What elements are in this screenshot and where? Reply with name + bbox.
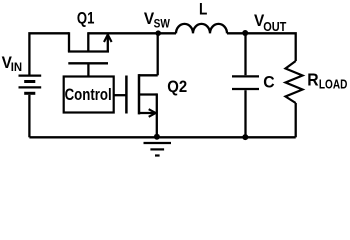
wire inductor to V_OUT node: [227, 32, 245, 34]
battery V_IN: [19, 76, 42, 138]
inductor L: [176, 24, 227, 33]
label RLOAD: [307, 70, 347, 92]
svg-text:Control: Control: [65, 86, 112, 105]
svg-text:Q2: Q2: [167, 78, 187, 96]
svg-text:IN: IN: [11, 61, 22, 74]
svg-text:LOAD: LOAD: [319, 79, 348, 92]
transistor Q1: [68, 32, 112, 76]
control block: [64, 77, 114, 113]
wire R_LOAD bottom to ground rail: [295, 103, 297, 137]
transistor Q2: [126, 33, 157, 137]
svg-text:SW: SW: [154, 18, 171, 31]
wire V_OUT down to capacitor: [244, 33, 246, 75]
label VOUT: [254, 12, 287, 34]
node VSW junction dot: [155, 30, 161, 36]
resistor R_LOAD: [286, 61, 303, 103]
node VOUT junction dot: [242, 30, 248, 36]
svg-text:C: C: [263, 73, 275, 91]
node capacitor-rail junction dot: [242, 134, 248, 140]
label VIN: [2, 55, 22, 74]
wire capacitor to bottom rail: [244, 90, 246, 137]
label VSW: [144, 11, 170, 31]
wire top rail left (battery to Q1 source): [29, 33, 69, 74]
svg-text:Q1: Q1: [77, 10, 95, 28]
wire V_SW to inductor: [158, 32, 176, 34]
svg-text:R: R: [307, 70, 318, 90]
node ground junction dot: [154, 134, 160, 140]
wire control output to Q2 gate: [114, 94, 127, 96]
svg-text:OUT: OUT: [263, 19, 287, 34]
ground: [144, 143, 172, 156]
wire bottom rail: [29, 136, 295, 138]
wire top rail (Q1 drain to V_SW node): [88, 32, 158, 34]
capacitor C: [232, 76, 259, 89]
svg-text:L: L: [199, 0, 207, 18]
wire V_OUT to R_LOAD top: [245, 33, 296, 61]
